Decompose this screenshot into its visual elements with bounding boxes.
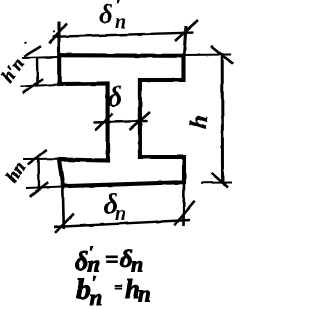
extension line top-left vertical: [57, 21, 60, 55]
extension line h'n top: [22, 57, 58, 58]
svg-text:=: =: [115, 281, 123, 296]
tick h'n top: [24, 46, 41, 56]
tick delta left: [95, 114, 113, 131]
dimension line h'n: [36, 58, 39, 87]
svg-text:n: n: [115, 203, 126, 225]
dimension line bn: [54, 220, 190, 227]
tick h bottom: [212, 173, 229, 188]
extension line bn right: [182, 182, 185, 227]
dimension line h: [221, 55, 224, 184]
svg-text:n: n: [90, 285, 103, 310]
formula line 2: b'n = hn: [76, 272, 151, 310]
extension line h'n bottom: [20, 85, 59, 87]
label h right (rotated): [186, 113, 214, 130]
extension line bn left: [63, 187, 64, 229]
tick b'n left: [49, 23, 67, 43]
label delta web: [108, 81, 123, 113]
extension line hn top: [23, 158, 59, 160]
label hn left bottom (rotated): [2, 158, 30, 186]
formula line 1: delta'n = delta n: [75, 242, 143, 277]
extension line h bottom: [201, 182, 232, 184]
dimension line hn: [37, 157, 40, 188]
I-section outline: [59, 55, 184, 186]
tick delta right: [130, 112, 151, 130]
extension line top-right vertical: [184, 26, 186, 55]
extension line hn bottom: [26, 187, 63, 189]
label bn bottom: [104, 188, 127, 225]
tick b'n right: [175, 20, 198, 41]
svg-text:δ: δ: [99, 0, 113, 29]
dimension line delta web: [93, 121, 148, 123]
tick bn left: [55, 214, 74, 233]
label b'n top: [99, 0, 126, 33]
tick h'n bottom: [23, 79, 43, 93]
label h'n left top (rotated): [0, 54, 28, 86]
tick hn top: [28, 150, 47, 165]
tick bn right: [174, 201, 194, 225]
svg-text:δ: δ: [108, 81, 123, 113]
svg-text:=: =: [105, 247, 119, 273]
extension line h top: [184, 54, 232, 57]
dimension line b'n: [52, 33, 193, 37]
svg-text:n: n: [138, 282, 151, 307]
svg-text:n: n: [131, 252, 143, 277]
tick h top: [211, 46, 233, 64]
speck near left tick: [24, 31, 54, 44]
svg-text:n: n: [115, 11, 126, 33]
tick hn bottom: [30, 182, 49, 197]
